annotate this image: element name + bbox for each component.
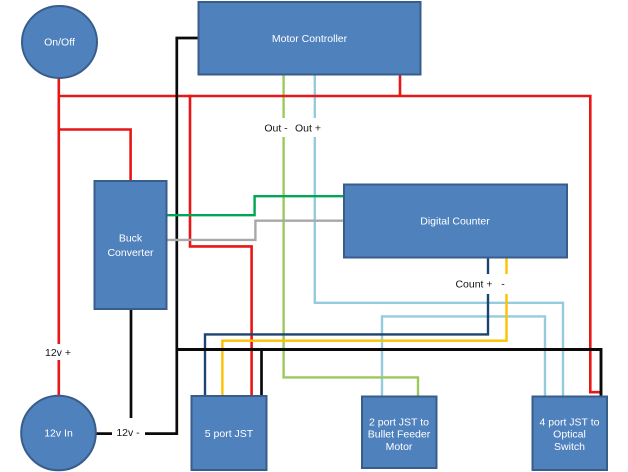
label Count- [501, 279, 505, 291]
block 5 port JST [192, 396, 267, 470]
svg-text:Bullet Feeder: Bullet Feeder [368, 429, 431, 441]
wire gray (Buck Converter to Digital Counter) [166, 221, 344, 240]
label Out+ [295, 123, 321, 135]
label Count+ [452, 274, 512, 294]
wire light-green (Motor Controller Out- to 2-port JST) [284, 74, 418, 396]
svg-text:Motor: Motor [386, 441, 413, 453]
svg-text:Switch: Switch [554, 441, 585, 453]
svg-text:Buck: Buck [119, 233, 143, 245]
wire light-blue LB1 (Motor Controller Out+ to 4-port JST) [315, 74, 563, 397]
svg-text:-: - [501, 279, 505, 291]
block 2 port JST to Bullet Feeder Motor [362, 397, 437, 469]
block Motor Controller [199, 2, 421, 75]
node On/Off switch [22, 6, 97, 78]
wire navy Count+ (Digital Counter to 5-port JST) [205, 257, 488, 396]
wire black Buck Converter 12v- drop [130, 308, 133, 434]
svg-text:Count +: Count + [455, 279, 492, 291]
block Digital Counter [344, 185, 567, 258]
wire red to 5-port JST [190, 95, 252, 396]
svg-text:12v -: 12v - [116, 427, 140, 439]
wire yellow Count- (Digital Counter to 5-port JST) [222, 257, 506, 396]
wire black Motor Controller to 12v- [96, 38, 199, 434]
label 12v- [112, 418, 145, 440]
wire red 12v+ vertical (On/Off to 12v In) [57, 78, 60, 397]
node 12v In [21, 396, 96, 471]
svg-text:Optical: Optical [553, 429, 586, 441]
block 4 port JST to Optical Switch [533, 397, 608, 471]
svg-text:On/Off: On/Off [44, 37, 75, 49]
block Buck Converter [95, 181, 167, 309]
label Out- [261, 118, 325, 137]
wire red to Buck Converter [58, 130, 131, 182]
wire light-blue LB2 (2-port JST to 4-port JST) [382, 316, 545, 397]
svg-text:2 port JST to: 2 port JST to [369, 417, 429, 429]
svg-text:12v +: 12v + [45, 347, 71, 359]
wire black drop to 5-port JST [260, 350, 263, 397]
svg-text:Out +: Out + [295, 123, 321, 135]
label 12v+ [42, 344, 75, 360]
svg-text:Digital Counter: Digital Counter [420, 216, 490, 228]
wire red Motor Controller drop [399, 74, 402, 97]
svg-text:4 port JST to: 4 port JST to [540, 417, 600, 429]
svg-text:Motor Controller: Motor Controller [272, 33, 348, 45]
svg-text:5 port JST: 5 port JST [205, 428, 254, 440]
svg-text:Converter: Converter [107, 247, 154, 259]
svg-text:Out -: Out - [264, 123, 288, 135]
wire green (Buck Converter to Digital Counter) [166, 196, 344, 215]
wire red main horizontal bus [58, 96, 600, 392]
svg-text:12v In: 12v In [44, 428, 73, 440]
wire black ground bus [177, 350, 601, 398]
